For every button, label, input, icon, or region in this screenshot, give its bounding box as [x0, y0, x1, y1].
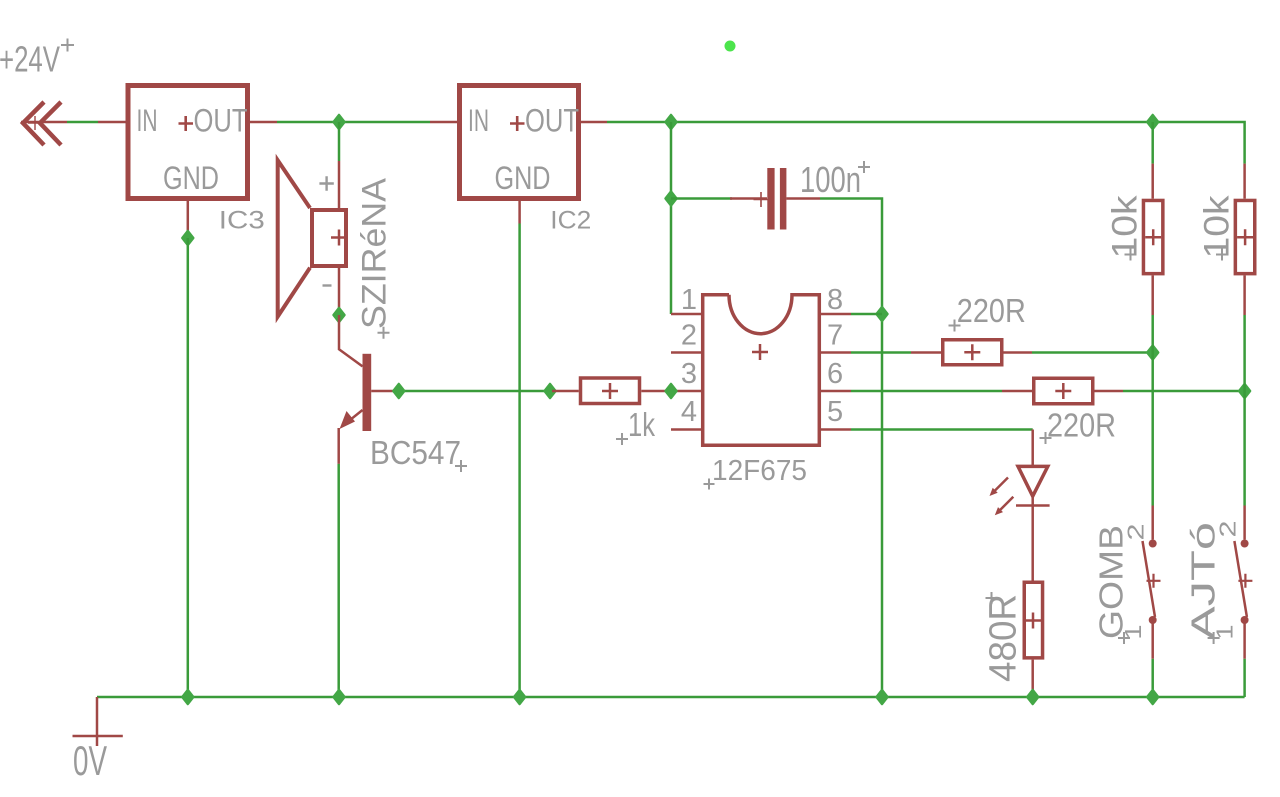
- node column B mid: [1239, 384, 1250, 398]
- svg-text:4: 4: [681, 396, 697, 428]
- svg-text:220R: 220R: [1047, 407, 1116, 444]
- svg-text:IC3: IC3: [219, 207, 265, 235]
- svg-text:480R: 480R: [983, 594, 1025, 682]
- node rail IC3: [182, 690, 193, 704]
- wire IC2 GND to bottom rail: [518, 224, 521, 698]
- top rail wire: [607, 122, 1245, 164]
- resistor R2 220R: [1002, 378, 1123, 404]
- pin number 1 GOMB: [1118, 625, 1146, 645]
- node rail vss: [877, 690, 888, 704]
- wire GOMB to rail: [1151, 659, 1154, 697]
- node cap left: [666, 192, 677, 206]
- node pin3: [666, 384, 677, 398]
- pin GND IC2: [518, 201, 521, 224]
- pin OUT IC3: [250, 121, 277, 124]
- label 480R: [983, 592, 1025, 682]
- svg-text:5: 5: [827, 396, 843, 428]
- svg-text:10k: 10k: [1197, 195, 1236, 259]
- node rail GOMB: [1147, 690, 1158, 704]
- node collector: [334, 308, 345, 322]
- wire pin7: [851, 351, 911, 354]
- node rail IC2: [514, 690, 525, 704]
- label BC547: [370, 434, 467, 472]
- wire column B top: [1243, 162, 1246, 165]
- svg-text:0V: 0V: [73, 737, 107, 784]
- regulator IC2: [460, 86, 580, 199]
- label SZIRéNA: [356, 178, 394, 339]
- node GND column IC3: [182, 231, 193, 245]
- pin IN IC2: [430, 121, 457, 124]
- svg-text:10k: 10k: [1106, 195, 1145, 259]
- pin GND IC3: [187, 201, 190, 238]
- pin siren -: [338, 268, 341, 311]
- wire base net: [393, 390, 552, 393]
- svg-text:100n: 100n: [800, 159, 861, 200]
- label 220R: [1040, 407, 1117, 445]
- pin 1k left: [552, 390, 579, 393]
- svg-text:AJTó: AJTó: [1185, 522, 1222, 640]
- IC U1 12F675: [703, 295, 820, 446]
- pin 1k right / pin 3: [641, 390, 701, 393]
- svg-text:BC547: BC547: [370, 434, 461, 471]
- node column A mid: [1147, 346, 1158, 360]
- wire: [67, 121, 98, 124]
- wire to cap: [671, 197, 732, 200]
- wire down to siren: [338, 122, 341, 161]
- svg-text:6: 6: [827, 358, 843, 390]
- wire column A mid: [1151, 315, 1154, 506]
- switch S2 AJTO: [1234, 506, 1252, 659]
- pin 5: [821, 428, 851, 431]
- pin 7: [821, 351, 851, 354]
- svg-text:12F675: 12F675: [712, 455, 807, 487]
- label 100n: [800, 159, 870, 200]
- svg-text:1k: 1k: [628, 406, 655, 443]
- svg-text:IC2: IC2: [550, 207, 591, 235]
- junction top of siren: [334, 115, 345, 129]
- wire VDD column: [670, 122, 673, 314]
- svg-text:OUT: OUT: [525, 103, 579, 139]
- wire emitter to rail: [337, 464, 340, 697]
- svg-text:IN: IN: [137, 102, 158, 138]
- label 1k: [616, 406, 655, 445]
- label 10k: [1197, 195, 1236, 261]
- pin 1: [671, 313, 701, 316]
- bottom rail wire: [97, 696, 1245, 699]
- wire column A top: [1151, 122, 1154, 164]
- capacitor C1 100n: [730, 168, 820, 230]
- junction VDD column: [666, 115, 677, 129]
- svg-text:GND: GND: [495, 160, 551, 196]
- wire pin8: [851, 313, 882, 316]
- label 10k: [1106, 195, 1145, 261]
- ground symbol 0V: [73, 697, 123, 746]
- svg-text:IN: IN: [468, 102, 489, 138]
- regulator IC3: [128, 86, 248, 199]
- svg-text:GOMB: GOMB: [1093, 525, 1130, 639]
- svg-text:8: 8: [827, 284, 843, 316]
- resistor R3 1k: [581, 378, 640, 404]
- label 12F675: [704, 455, 808, 490]
- node rail 480R: [1027, 690, 1038, 704]
- speaker SZIRENA: [278, 160, 347, 316]
- supply label +24V: [0, 39, 74, 80]
- pin IN IC3: [98, 121, 126, 124]
- resistor R4 480R: [1024, 582, 1042, 695]
- wire pin5: [851, 428, 1033, 431]
- pin 8: [821, 313, 851, 316]
- wire AJTO to rail: [1243, 659, 1246, 697]
- pin 6: [821, 390, 851, 393]
- wire cap to vss column: [820, 199, 882, 698]
- LED D1: [990, 466, 1050, 515]
- svg-text:2: 2: [681, 320, 697, 352]
- svg-text:7: 7: [827, 320, 843, 352]
- svg-text:+24V: +24V: [0, 39, 60, 80]
- svg-text:SZIRéNA: SZIRéNA: [356, 178, 394, 329]
- pin OUT IC2: [581, 121, 607, 124]
- node base: [393, 384, 404, 398]
- stray green dot: [725, 41, 736, 52]
- wire pin6: [851, 390, 1002, 393]
- pin LED anode wire: [1031, 430, 1034, 467]
- svg-text:3: 3: [681, 358, 697, 390]
- resistor R5 10k: [1143, 164, 1162, 315]
- junction 10k column A: [1147, 115, 1158, 129]
- wire column B mid: [1243, 315, 1246, 506]
- pin siren +: [338, 161, 341, 208]
- pin 4: [671, 428, 701, 431]
- svg-text:GND: GND: [163, 160, 219, 196]
- node pin8: [877, 307, 888, 321]
- wire 220R to column B: [1123, 390, 1245, 393]
- wire OUT IC3 to IN IC2: [277, 121, 430, 124]
- svg-text:220R: 220R: [957, 292, 1026, 329]
- pin number 1 AJTO: [1208, 625, 1238, 645]
- supply arrow symbol (net to +24V): [21, 102, 67, 145]
- transistor Q1 BC547: [339, 315, 393, 464]
- pin 2: [671, 351, 701, 354]
- node base joint: [545, 384, 556, 398]
- switch S1 GOMB: [1143, 506, 1161, 659]
- label 220R: [949, 292, 1026, 332]
- node rail emitter: [334, 690, 345, 704]
- resistor R1 220R: [911, 340, 1032, 365]
- resistor R6 10k: [1235, 164, 1254, 315]
- wire 220R to column A: [1032, 351, 1153, 354]
- svg-text:OUT: OUT: [194, 103, 248, 139]
- svg-text:1: 1: [681, 284, 697, 316]
- wire IC3 GND to bottom rail: [187, 238, 190, 697]
